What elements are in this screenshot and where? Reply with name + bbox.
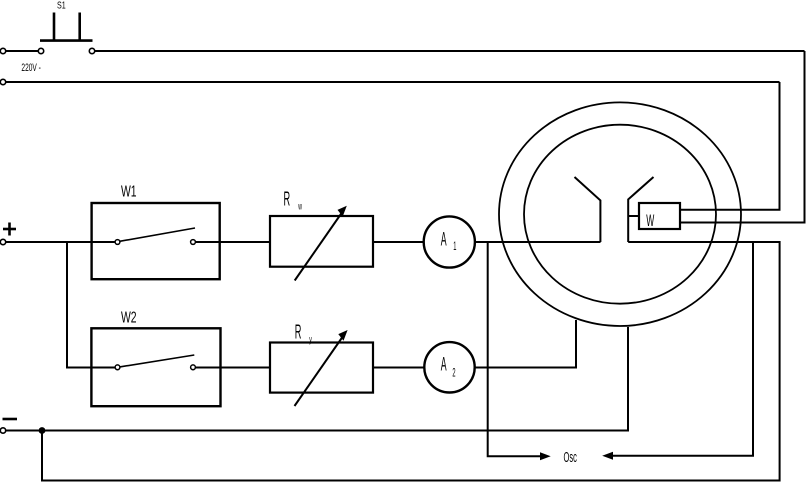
resistor Ry box	[270, 343, 373, 393]
filament W connection stub	[628, 215, 639, 217]
switch W2 blade	[118, 355, 195, 367]
wire A1 branch down to Osc	[488, 242, 540, 456]
contact W1 right	[191, 240, 196, 245]
svg-text:220V -: 220V -	[21, 61, 40, 73]
svg-text:1: 1	[453, 240, 456, 253]
wire branch down to W2 row	[67, 242, 118, 368]
svg-text:Osc: Osc	[564, 451, 578, 466]
contact W2 right	[191, 365, 196, 370]
resistor Ry arrow shaft	[295, 336, 344, 407]
switch W1 blade	[118, 228, 196, 242]
svg-text:y: y	[309, 334, 312, 345]
resistor Rw box	[270, 216, 373, 267]
svg-text:2: 2	[452, 366, 455, 379]
svg-text:W2: W2	[121, 308, 137, 326]
wire 220V top line left segment	[3, 50, 41, 52]
wire A1 to left deflection plate	[475, 241, 601, 243]
switch S1 stem left	[53, 13, 56, 41]
terminal S1 left contact	[38, 48, 43, 53]
switch S1 button bar	[40, 39, 93, 42]
wire plus row from + terminal into W1	[3, 241, 118, 243]
terminal S1 right contact	[89, 48, 94, 53]
filament W box	[639, 203, 680, 229]
wire top line from S1 to right edge	[92, 50, 805, 52]
wire Ry to A2	[373, 367, 424, 369]
svg-text:W1: W1	[121, 182, 137, 200]
tube outer envelope	[499, 102, 741, 326]
wire W2 to Ry	[193, 367, 270, 369]
wire A2 to tube envelope	[475, 320, 576, 368]
resistor Rw arrow shaft	[295, 211, 343, 281]
svg-text:R: R	[295, 322, 302, 344]
switch W1 box	[92, 203, 220, 279]
arrowhead Rw	[338, 206, 347, 217]
junction dot minus rail	[39, 427, 46, 434]
terminal minus	[0, 428, 5, 433]
terminal 220V line2 left	[0, 79, 5, 84]
svg-text:A: A	[441, 354, 447, 376]
wire Rw to A1	[373, 241, 424, 243]
svg-text:S1: S1	[57, 0, 66, 11]
ammeter A1	[424, 216, 475, 267]
svg-text:w: w	[298, 201, 303, 212]
left deflection plate	[575, 177, 601, 242]
switch S1 stem right	[78, 13, 81, 41]
terminal 220V line1 left	[0, 48, 5, 53]
plus symbol	[3, 223, 16, 236]
contact W2 left	[115, 365, 120, 370]
svg-text:A: A	[441, 229, 447, 251]
svg-text:R: R	[284, 189, 291, 211]
wire anode branch down to Osc right	[613, 242, 753, 456]
tube inner envelope	[524, 125, 716, 304]
arrowhead Osc right	[602, 452, 613, 460]
wire W1 to Rw	[193, 241, 270, 243]
wire 220V second line	[3, 81, 780, 83]
minus symbol	[3, 418, 18, 421]
arrowhead Ry	[338, 330, 347, 341]
contact W1 left	[115, 240, 120, 245]
wire right drop to filament bottom lead	[680, 51, 805, 223]
switch W2 box	[91, 328, 220, 406]
right deflection plate	[628, 177, 653, 242]
arrowhead Osc left	[540, 452, 551, 460]
svg-text:W: W	[646, 211, 654, 230]
wire right drop to filament top lead	[680, 82, 780, 210]
terminal plus	[0, 239, 5, 244]
wire junction drop to bottom rail	[42, 242, 780, 481]
ammeter A2	[424, 342, 474, 392]
wire minus terminal to tube envelope	[3, 327, 628, 431]
